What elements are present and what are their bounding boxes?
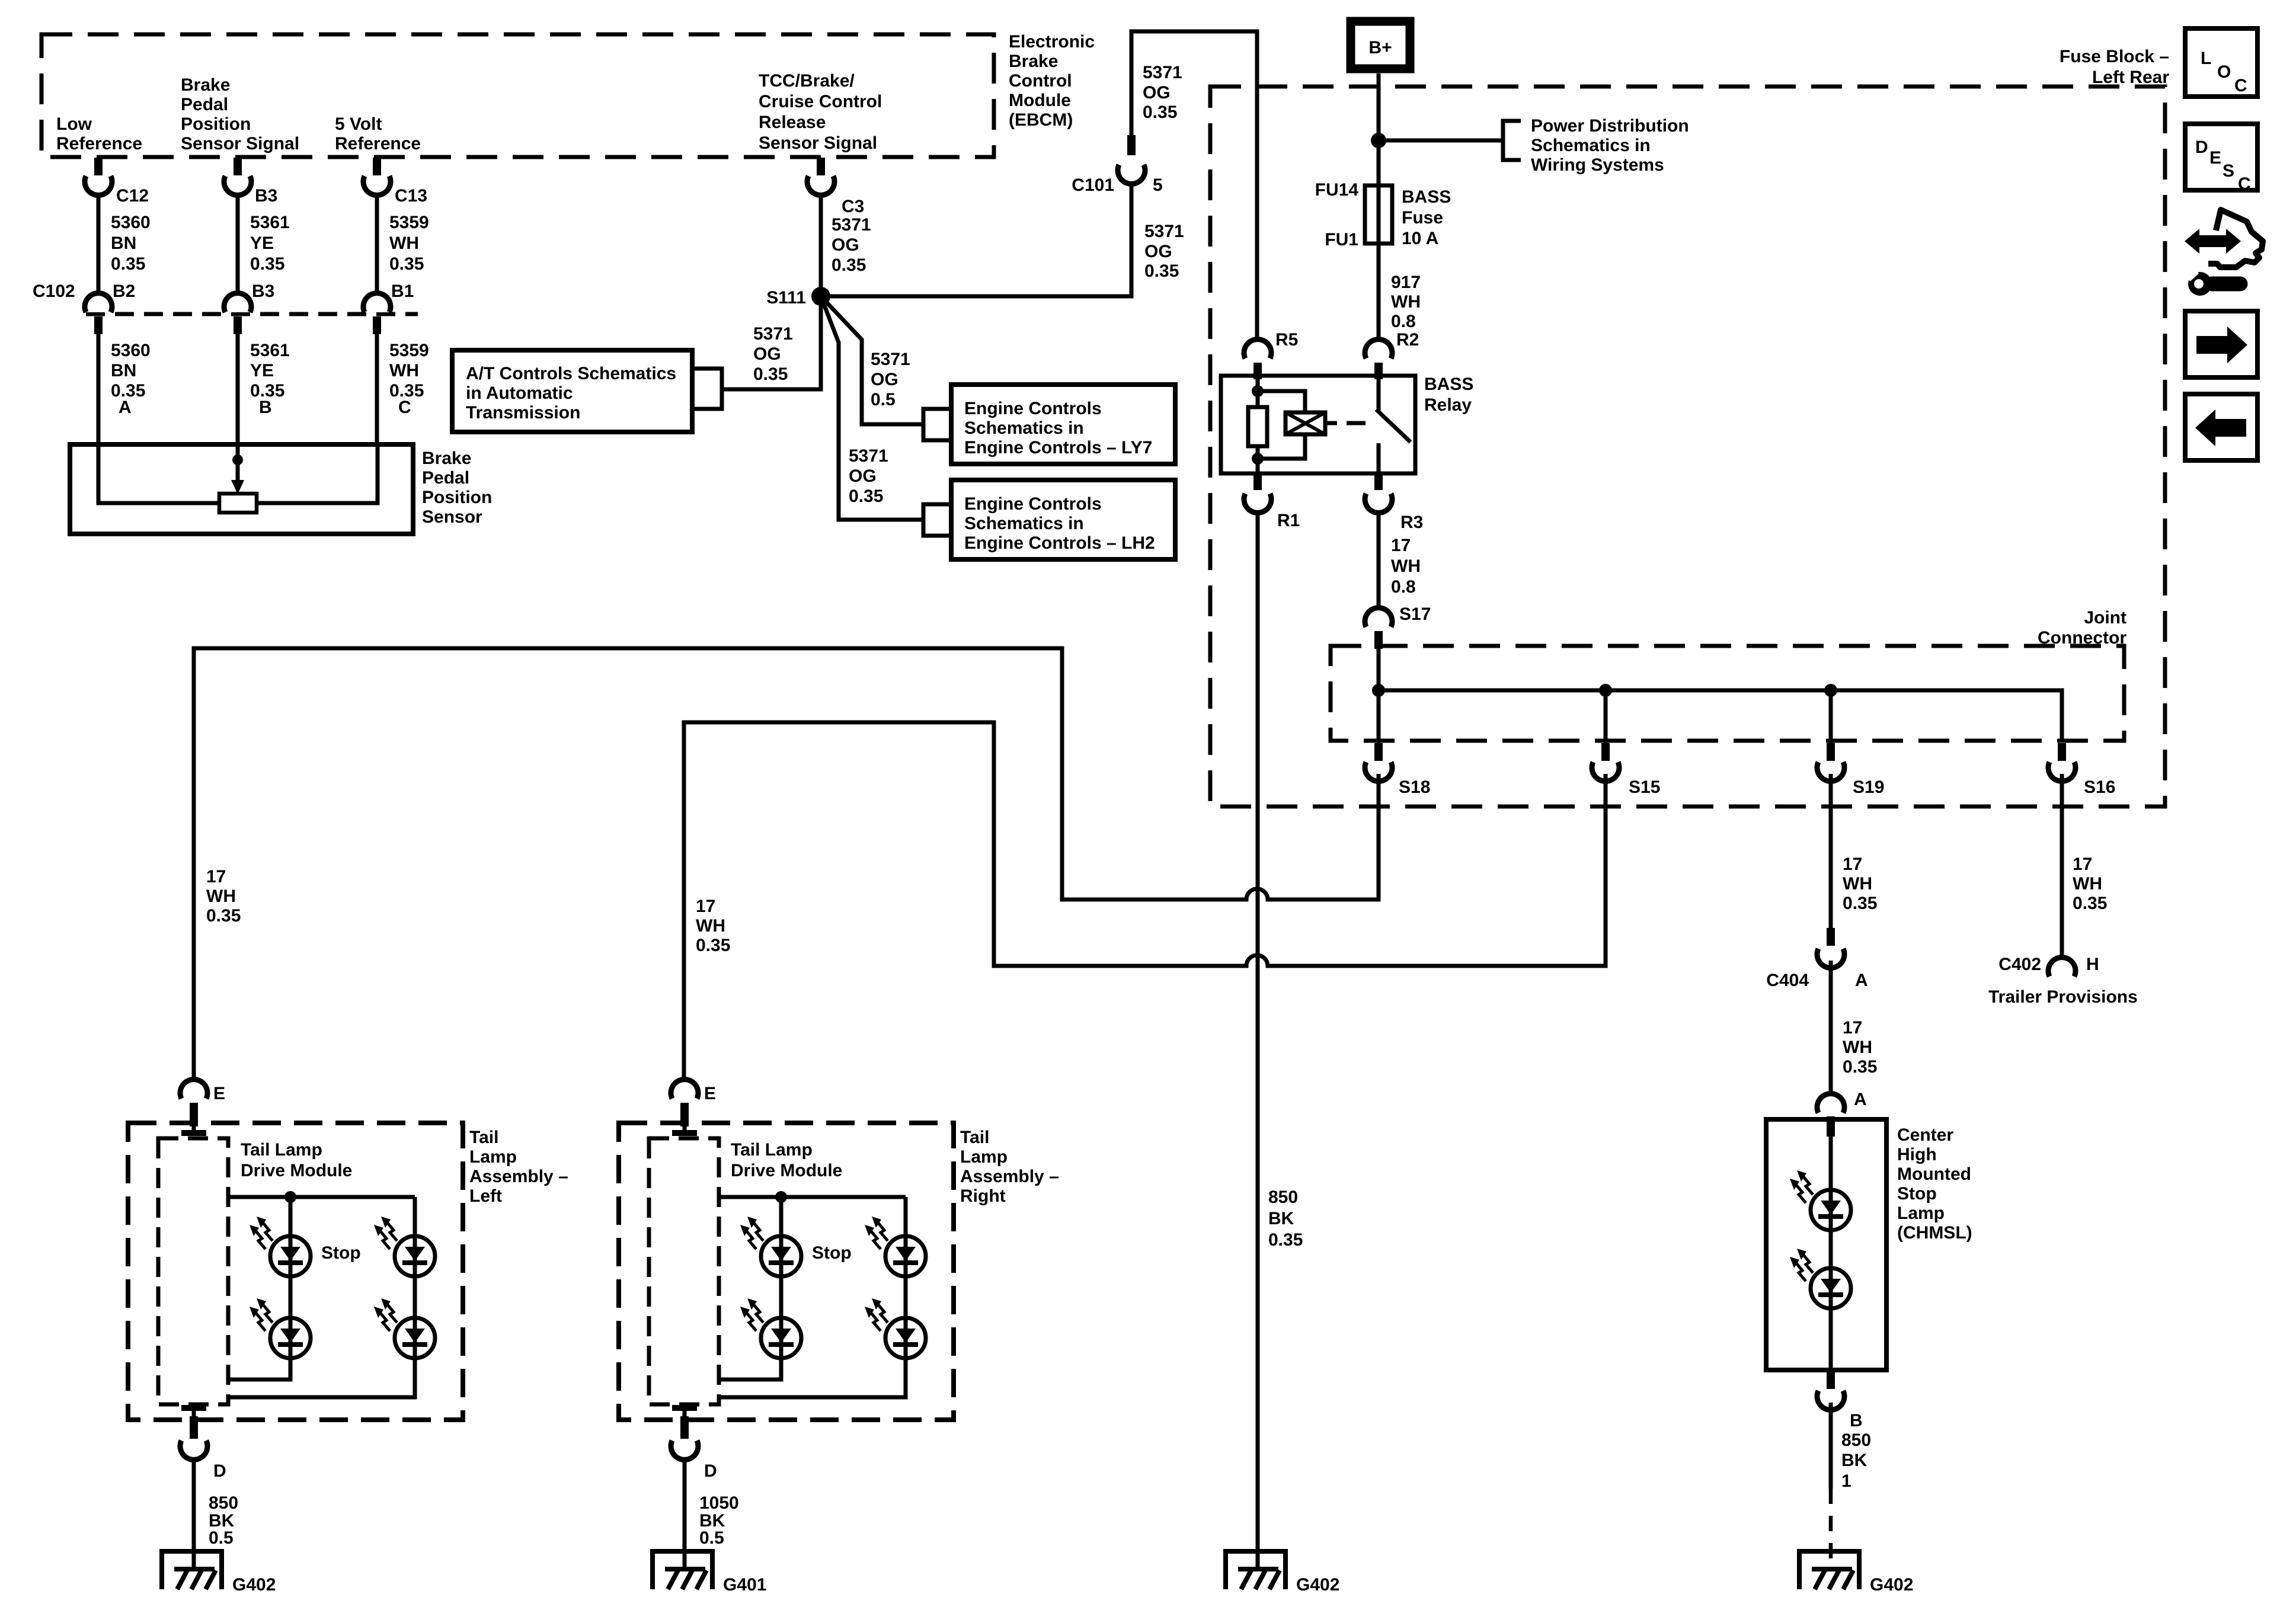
svg-text:R1: R1 xyxy=(1277,511,1300,530)
svg-text:Pedal: Pedal xyxy=(181,95,228,114)
svg-text:0.35: 0.35 xyxy=(1268,1230,1303,1250)
svg-text:A: A xyxy=(1854,1090,1867,1109)
svg-text:D: D xyxy=(2195,137,2208,157)
label 1050 BK 0.5 xyxy=(699,1493,739,1548)
label Electronic Brake Control Module (EBCM) xyxy=(1009,32,1095,130)
wire S111 to LY7 bracket xyxy=(821,296,923,424)
label Center High Mounted Stop Lamp (CHMSL) xyxy=(1897,1125,1972,1243)
svg-text:C101: C101 xyxy=(1072,175,1114,195)
connector E (right lamp) xyxy=(671,1080,698,1133)
bracket LH2 box xyxy=(923,504,951,536)
svg-text:Reference: Reference xyxy=(335,134,421,153)
node junction on sensor B wire xyxy=(232,444,243,481)
svg-text:5371: 5371 xyxy=(753,324,793,344)
svg-text:Electronic: Electronic xyxy=(1009,32,1095,52)
svg-text:5359: 5359 xyxy=(389,341,429,360)
svg-text:17: 17 xyxy=(1391,536,1411,555)
fuse FU14/FU1 BASS Fuse 10A xyxy=(1365,185,1392,244)
svg-text:0.35: 0.35 xyxy=(389,254,424,274)
svg-text:Left Rear: Left Rear xyxy=(2092,68,2169,87)
svg-text:Position: Position xyxy=(422,488,492,507)
svg-text:YE: YE xyxy=(250,361,274,380)
svg-text:BK: BK xyxy=(1841,1451,1868,1470)
label 17 WH 0.35 (CHMSL wire) xyxy=(1843,1018,1877,1077)
component box Brake Pedal Position Sensor xyxy=(70,444,413,534)
svg-text:High: High xyxy=(1897,1145,1937,1164)
ground G401 xyxy=(650,1549,715,1589)
svg-text:Low: Low xyxy=(56,114,92,134)
label G402 (center) xyxy=(1296,1575,1339,1595)
svg-text:S111: S111 xyxy=(766,288,806,308)
wire relay coil loop xyxy=(1258,391,1305,459)
bracket LY7 box xyxy=(923,409,951,440)
svg-text:Assembly –: Assembly – xyxy=(469,1167,568,1186)
connector S17 xyxy=(1365,608,1392,649)
module box Tail Lamp Drive Module right (dashed) xyxy=(649,1138,719,1404)
svg-text:850: 850 xyxy=(209,1493,238,1513)
svg-text:Joint: Joint xyxy=(2084,608,2126,628)
svg-text:Engine Controls – LH2: Engine Controls – LH2 xyxy=(964,533,1155,553)
svg-text:WH: WH xyxy=(1391,292,1421,312)
svg-text:Mounted: Mounted xyxy=(1897,1164,1971,1184)
wire 5359 WH C13 to C102 xyxy=(375,195,379,300)
label C13 xyxy=(395,186,427,206)
svg-text:0.35: 0.35 xyxy=(753,364,788,384)
wire 17 WH S18 to left tail lamp E xyxy=(194,648,1379,1083)
label BASS Relay xyxy=(1424,375,1473,415)
svg-text:A: A xyxy=(119,398,132,417)
label R1 xyxy=(1277,511,1300,530)
wire S111 to C101 xyxy=(821,184,1131,296)
svg-text:B3: B3 xyxy=(255,186,277,206)
switch relay arm xyxy=(1376,376,1411,473)
wire junction to Power Distribution bracket xyxy=(1379,139,1503,143)
connector D (right lamp) xyxy=(671,1408,698,1459)
svg-text:B: B xyxy=(1850,1411,1863,1430)
svg-text:5371: 5371 xyxy=(832,215,871,235)
LED stop lamp left 1a xyxy=(250,1217,311,1276)
wire C101 to top corner xyxy=(1131,31,1257,340)
label Trailer Provisions xyxy=(1988,987,2138,1007)
svg-text:Brake: Brake xyxy=(1009,52,1058,71)
label 917 WH 0.8 xyxy=(1391,273,1421,331)
svg-text:Relay: Relay xyxy=(1424,395,1472,415)
svg-text:0.5: 0.5 xyxy=(699,1528,724,1548)
svg-text:Control: Control xyxy=(1009,71,1072,91)
label G402 (right) xyxy=(1870,1575,1913,1595)
wiper arrow of potentiometer xyxy=(231,480,244,494)
battery feed B+ xyxy=(1351,21,1410,69)
node bus S18 tap xyxy=(1372,684,1385,697)
icon arrow left box xyxy=(2185,394,2257,460)
reference box Engine Controls LY7 xyxy=(951,385,1175,464)
LED stop lamp left 2b xyxy=(374,1298,435,1358)
svg-text:(CHMSL): (CHMSL) xyxy=(1897,1223,1972,1243)
wire 5360 BN C102 to sensor A xyxy=(97,334,101,444)
LED stop lamp right 1b xyxy=(740,1298,801,1358)
connector D (left lamp) xyxy=(180,1408,207,1459)
label R5 xyxy=(1275,330,1298,350)
svg-text:OG: OG xyxy=(832,235,859,255)
reference box Engine Controls LH2 xyxy=(951,480,1175,559)
icon LOC box xyxy=(2185,28,2257,97)
bracket Power Distribution xyxy=(1503,121,1521,160)
wire 5361 YE C102 to sensor B xyxy=(236,334,240,444)
svg-text:C12: C12 xyxy=(116,186,149,206)
label Stop (right) xyxy=(812,1243,852,1263)
svg-text:17: 17 xyxy=(2073,854,2092,874)
svg-text:L: L xyxy=(2201,49,2211,68)
connector A CHMSL xyxy=(1817,1094,1844,1137)
svg-text:Right: Right xyxy=(960,1186,1006,1206)
splice S111 xyxy=(811,287,830,306)
connector row C102 (dashed harness line) xyxy=(86,312,418,316)
lamp box CHMSL xyxy=(1766,1119,1886,1370)
svg-text:0.35: 0.35 xyxy=(206,906,241,926)
label 850 BK 1 xyxy=(1841,1430,1871,1491)
wire right lamp LED string 1 xyxy=(720,1197,781,1379)
wire 5371 OG C3 to S111 xyxy=(819,195,823,296)
wire 17 WH 0.8 R3 to S17 xyxy=(1377,513,1381,609)
label S16 xyxy=(2084,777,2115,797)
svg-text:H: H xyxy=(2086,955,2099,974)
label B (CHMSL) xyxy=(1850,1411,1863,1430)
svg-text:WH: WH xyxy=(206,886,236,906)
svg-text:Lamp: Lamp xyxy=(960,1147,1008,1167)
svg-text:5361: 5361 xyxy=(250,341,290,360)
label Fuse Block - Left Rear xyxy=(2060,47,2169,87)
svg-text:0.35: 0.35 xyxy=(1843,1057,1877,1077)
svg-text:0.5: 0.5 xyxy=(209,1528,234,1548)
svg-text:17: 17 xyxy=(1843,1018,1862,1038)
svg-text:R3: R3 xyxy=(1400,513,1423,532)
svg-text:0.8: 0.8 xyxy=(1391,312,1416,331)
relay operator coil symbol xyxy=(1285,412,1325,434)
label R3 xyxy=(1400,513,1423,532)
node left lamp feed tap xyxy=(284,1191,296,1203)
svg-text:0.35: 0.35 xyxy=(1143,103,1177,122)
svg-text:5 Volt: 5 Volt xyxy=(335,114,382,134)
svg-text:Stop: Stop xyxy=(1897,1184,1937,1204)
svg-text:Connector: Connector xyxy=(2038,628,2126,648)
svg-text:Engine Controls – LY7: Engine Controls – LY7 xyxy=(964,438,1152,457)
wire 17 WH S16 to C402 xyxy=(2060,774,2064,958)
LED stop lamp right 2a xyxy=(865,1217,926,1276)
svg-text:Schematics in: Schematics in xyxy=(964,514,1084,533)
wire sensor internal left leg xyxy=(98,444,219,503)
svg-text:Fuse Block –: Fuse Block – xyxy=(2060,47,2169,66)
svg-text:OG: OG xyxy=(1143,83,1171,103)
svg-text:0.35: 0.35 xyxy=(111,254,145,274)
svg-text:B1: B1 xyxy=(391,281,414,301)
svg-text:5: 5 xyxy=(1153,175,1163,195)
icon DESC box xyxy=(2185,124,2257,194)
svg-text:Stop: Stop xyxy=(812,1243,852,1263)
wire left lamp LED string 1 xyxy=(229,1197,290,1379)
svg-text:E: E xyxy=(2209,148,2221,168)
svg-text:Sensor Signal: Sensor Signal xyxy=(181,134,299,153)
svg-text:0.35: 0.35 xyxy=(1843,894,1877,913)
svg-text:B3: B3 xyxy=(252,281,274,301)
connector R1 (relay pin) xyxy=(1244,473,1271,513)
LED CHMSL 1 xyxy=(1790,1170,1851,1230)
svg-text:OG: OG xyxy=(753,344,781,364)
svg-text:WH: WH xyxy=(1843,1038,1872,1057)
svg-text:B2: B2 xyxy=(113,281,135,301)
label C404 xyxy=(1766,971,1809,990)
svg-text:WH: WH xyxy=(389,361,419,380)
svg-text:Module: Module xyxy=(1009,91,1071,110)
wire left lamp internal feed xyxy=(228,1195,415,1199)
svg-text:TCC/Brake/: TCC/Brake/ xyxy=(759,71,855,91)
svg-text:C: C xyxy=(2238,174,2251,194)
label pin B1 xyxy=(391,281,414,301)
svg-text:Tail: Tail xyxy=(469,1128,498,1147)
svg-text:OG: OG xyxy=(849,466,877,486)
LED stop lamp left 1b xyxy=(250,1298,311,1358)
reference box A/T Controls Schematics xyxy=(452,350,692,432)
svg-text:WH: WH xyxy=(1843,874,1872,894)
svg-text:A: A xyxy=(1855,971,1868,990)
label 5361 YE 0.35 (upper) xyxy=(250,213,290,274)
svg-text:0.35: 0.35 xyxy=(849,486,883,506)
wire left lamp LED string 2 xyxy=(229,1197,415,1397)
svg-text:Brake: Brake xyxy=(422,449,471,468)
svg-text:C102: C102 xyxy=(33,281,75,301)
wire 17 WH S15 to right tail lamp E xyxy=(684,722,1606,1083)
label C101 xyxy=(1072,175,1114,195)
connector R5 (relay pin) xyxy=(1244,340,1271,379)
svg-text:B+: B+ xyxy=(1368,38,1392,57)
connector S15 xyxy=(1592,743,1619,781)
wire 17 WH S19 to C404 xyxy=(1829,774,1833,928)
connector C13 (EBCM pin) xyxy=(363,158,391,195)
wire 850 BK 0.5 to G402 xyxy=(192,1459,196,1569)
svg-text:BN: BN xyxy=(111,361,136,380)
ground G402 (left) xyxy=(159,1549,224,1589)
svg-text:WH: WH xyxy=(1391,556,1421,576)
label FU1 xyxy=(1325,230,1358,249)
connector C101 pin 5 xyxy=(1118,135,1145,184)
svg-text:S19: S19 xyxy=(1853,777,1884,797)
label 5371 OG 0.5 xyxy=(871,350,910,409)
svg-text:17: 17 xyxy=(696,897,715,916)
label R2 xyxy=(1396,330,1419,350)
wire bus to S19 xyxy=(1829,690,1833,743)
connector C12 (EBCM pin) xyxy=(85,158,112,195)
connector S16 xyxy=(2048,743,2076,781)
wire bus to S15 xyxy=(1604,690,1608,743)
label 5371 OG 0.35 (LH2 wire) xyxy=(849,446,888,506)
svg-text:in Automatic: in Automatic xyxy=(466,383,573,403)
label D (right lamp) xyxy=(704,1461,717,1481)
label 5361 YE 0.35 B (lower) xyxy=(250,341,290,417)
svg-text:Lamp: Lamp xyxy=(469,1147,517,1167)
label S18 xyxy=(1399,777,1430,797)
connector C402 pin H xyxy=(2048,958,2076,977)
svg-text:Power Distribution: Power Distribution xyxy=(1531,116,1689,136)
label pin B3 (C102) xyxy=(252,281,274,301)
node right lamp feed tap xyxy=(775,1191,787,1203)
svg-text:E: E xyxy=(213,1084,225,1103)
label Joint Connector xyxy=(2038,608,2126,648)
ground G402 (center) xyxy=(1223,1549,1288,1589)
svg-text:Drive Module: Drive Module xyxy=(241,1161,352,1180)
svg-text:R2: R2 xyxy=(1396,330,1419,350)
svg-text:Tail Lamp: Tail Lamp xyxy=(241,1140,322,1160)
svg-text:0.35: 0.35 xyxy=(696,936,730,955)
svg-text:C: C xyxy=(2234,76,2247,95)
svg-text:917: 917 xyxy=(1391,273,1421,292)
svg-text:Schematics in: Schematics in xyxy=(1531,136,1651,155)
wire bus to S18 xyxy=(1377,690,1381,743)
svg-text:C13: C13 xyxy=(395,186,427,206)
label B3 xyxy=(255,186,277,206)
svg-text:5360: 5360 xyxy=(111,213,151,232)
label Tail Lamp Assembly - Right xyxy=(960,1128,1059,1206)
connector S19 xyxy=(1817,743,1844,781)
assembly box Tail Lamp Assembly Left (dashed) xyxy=(128,1123,463,1420)
svg-text:WH: WH xyxy=(696,916,725,936)
svg-text:O: O xyxy=(2217,62,2231,82)
svg-text:BN: BN xyxy=(111,233,136,253)
node bus S19 tap xyxy=(1824,684,1837,697)
wire joint connector bus xyxy=(1379,649,2062,742)
label Low Reference xyxy=(56,114,142,153)
wire 5361 YE B3 to C102 xyxy=(236,195,240,300)
label G401 xyxy=(723,1575,766,1595)
node relay coil top xyxy=(1252,385,1264,397)
svg-text:850: 850 xyxy=(1268,1188,1298,1207)
label 5359 WH 0.35 (upper) xyxy=(389,213,429,274)
svg-text:0.35: 0.35 xyxy=(832,255,866,275)
connector C102 pin B3 xyxy=(224,293,251,334)
node bus S15 tap xyxy=(1599,684,1612,697)
svg-text:Sensor Signal: Sensor Signal xyxy=(759,133,877,153)
label 850 BK 0.5 xyxy=(209,1493,238,1548)
wire S111 to A/T bracket xyxy=(722,296,821,389)
svg-text:Lamp: Lamp xyxy=(1897,1204,1945,1223)
label G402 (left) xyxy=(232,1575,276,1595)
label S15 xyxy=(1629,777,1660,797)
connector S18 xyxy=(1365,743,1392,781)
label 5 Volt Reference xyxy=(335,114,421,153)
label Engine Controls Schematics in Engine Controls - LY7 xyxy=(964,399,1152,457)
svg-text:Brake: Brake xyxy=(181,75,230,95)
label Tail Lamp Assembly - Left xyxy=(469,1128,568,1206)
connector C102 pin B1 xyxy=(363,293,391,334)
svg-text:G402: G402 xyxy=(1870,1575,1913,1595)
svg-text:BASS: BASS xyxy=(1402,187,1451,207)
label 5371 OG 0.35 (below C101) xyxy=(1144,222,1184,281)
label pin A (CHMSL) xyxy=(1854,1090,1867,1109)
svg-text:5371: 5371 xyxy=(1143,63,1182,82)
connector C404 pin A xyxy=(1817,928,1844,968)
svg-text:0.8: 0.8 xyxy=(1391,577,1416,597)
svg-text:5359: 5359 xyxy=(389,213,429,232)
svg-text:Stop: Stop xyxy=(321,1243,361,1263)
svg-text:0.5: 0.5 xyxy=(871,390,896,409)
label 17 WH 0.35 (right lamp wire) xyxy=(696,897,730,955)
svg-text:(EBCM): (EBCM) xyxy=(1009,110,1073,130)
wire B+ down to junction xyxy=(1377,73,1381,340)
svg-text:A/T Controls Schematics: A/T Controls Schematics xyxy=(466,364,676,383)
LED stop lamp right 2b xyxy=(865,1298,926,1358)
svg-text:C3: C3 xyxy=(842,197,864,216)
svg-text:BK: BK xyxy=(1268,1209,1294,1228)
wire 17 WH C404 to CHMSL A xyxy=(1829,961,1833,1097)
label BASS Fuse 10 A xyxy=(1402,187,1451,248)
label 17 WH 0.35 (S16 wire) xyxy=(2073,854,2107,913)
svg-text:C404: C404 xyxy=(1766,971,1809,990)
svg-text:850: 850 xyxy=(1841,1430,1871,1450)
svg-text:0.35: 0.35 xyxy=(1144,261,1179,281)
svg-text:FU14: FU14 xyxy=(1315,180,1359,200)
svg-text:G401: G401 xyxy=(723,1575,766,1595)
connector B3 (EBCM pin) xyxy=(224,158,251,195)
svg-text:WH: WH xyxy=(2073,874,2102,894)
svg-text:5371: 5371 xyxy=(871,350,910,369)
LED CHMSL 2 xyxy=(1790,1249,1851,1308)
svg-text:Center: Center xyxy=(1897,1125,1953,1145)
label 5360 BN 0.35 A (lower) xyxy=(111,341,151,417)
relay box BASS Relay xyxy=(1221,376,1415,473)
joint connector box (dashed) xyxy=(1331,646,2124,741)
wire 850 BK 0.35 R1 to G402 xyxy=(1256,513,1260,1569)
svg-text:Trailer Provisions: Trailer Provisions xyxy=(1988,987,2138,1007)
label A/T Controls Schematics in Automatic Transmission xyxy=(466,364,676,422)
svg-text:YE: YE xyxy=(250,233,274,253)
label Stop (left) xyxy=(321,1243,361,1263)
wire coil to switch (dashed link) xyxy=(1325,421,1370,425)
label C12 xyxy=(116,186,149,206)
svg-text:Assembly –: Assembly – xyxy=(960,1167,1059,1186)
svg-text:R5: R5 xyxy=(1275,330,1298,350)
svg-text:C402: C402 xyxy=(1998,955,2041,974)
svg-text:Cruise Control: Cruise Control xyxy=(759,92,882,111)
label pin B2 xyxy=(113,281,135,301)
connector R2 (relay pin) xyxy=(1365,340,1392,379)
wire CHMSL internal xyxy=(1829,1119,1833,1370)
wire sensor internal right leg xyxy=(257,444,378,503)
label E (left lamp) xyxy=(213,1084,225,1103)
label S17 xyxy=(1399,604,1431,624)
svg-text:G402: G402 xyxy=(232,1575,276,1595)
svg-text:Sensor: Sensor xyxy=(422,507,482,527)
label C102 xyxy=(33,281,75,301)
label FU14 xyxy=(1315,180,1359,200)
svg-text:G402: G402 xyxy=(1296,1575,1339,1595)
label pin A (C404) xyxy=(1855,971,1868,990)
svg-text:0.35: 0.35 xyxy=(2073,894,2107,913)
svg-text:Schematics in: Schematics in xyxy=(964,418,1084,438)
svg-text:5371: 5371 xyxy=(1144,222,1184,241)
label Power Distribution Schematics in Wiring Systems xyxy=(1531,116,1689,175)
label 5371 OG 0.35 (C3 wire) xyxy=(832,215,871,275)
module box Tail Lamp Drive Module left (dashed) xyxy=(158,1138,228,1404)
svg-text:D: D xyxy=(213,1461,226,1481)
svg-text:S17: S17 xyxy=(1399,604,1431,624)
svg-text:Tail: Tail xyxy=(960,1128,989,1147)
svg-text:E: E xyxy=(704,1084,716,1103)
svg-text:OG: OG xyxy=(871,370,898,389)
svg-text:Left: Left xyxy=(469,1186,502,1206)
svg-text:Fuse: Fuse xyxy=(1402,208,1443,228)
svg-text:BASS: BASS xyxy=(1424,375,1473,394)
svg-text:S16: S16 xyxy=(2084,777,2115,797)
label pin H xyxy=(2086,955,2099,974)
svg-text:5360: 5360 xyxy=(111,341,151,360)
